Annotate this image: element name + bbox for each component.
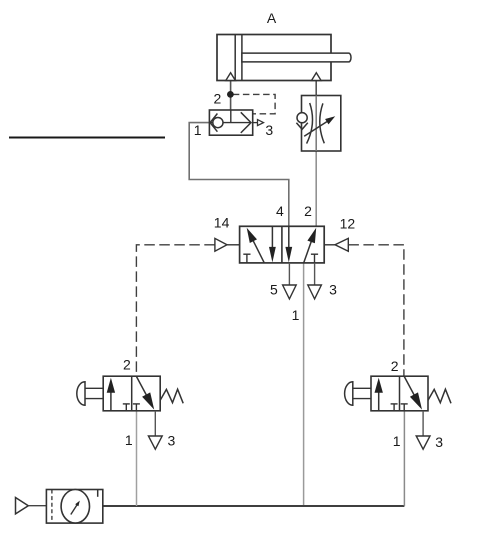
svg-text:3: 3 (329, 282, 337, 298)
quick-exhaust port 3 exhaust arrow (253, 122, 258, 124)
5/2 valve divider (281, 226, 283, 263)
node junction at port 2 of quick-exhaust valve (228, 92, 234, 98)
right 3/2 valve actuated position: flow path 1 to 2 arrow (378, 391, 380, 411)
5/2 pilot 14 arrow (227, 244, 240, 246)
wire quick-exhaust port 1 to 5/2 valve port 4 (189, 123, 289, 227)
quick-exhaust valve body (209, 110, 252, 135)
air service unit tick (97, 490, 99, 497)
right 3/2 valve divider (399, 376, 401, 411)
left 3/2 valve rest position: blocked port 1 (135, 404, 137, 411)
wire supply bus from air service unit to right 3/2 valve port 1 (103, 505, 405, 507)
left 3/2 valve divider (131, 376, 133, 411)
5/2 port 5 exhaust (288, 263, 290, 285)
horizontal rule (9, 136, 165, 138)
left 3/2 valve port 3 exhaust (154, 411, 156, 436)
5/2 pilot 12 arrow (324, 244, 335, 246)
quick-exhaust internal flow line (209, 122, 251, 124)
wire cylinder right port to flow-control valve top (315, 81, 317, 97)
svg-text:1: 1 (194, 122, 202, 138)
5/2 right position: flow path 1 to 2 arrow (304, 240, 312, 263)
wire flow-control valve bottom to 5/2 valve port 2 (315, 151, 317, 227)
svg-text:A: A (267, 10, 277, 26)
flow-control valve body (302, 96, 341, 152)
left 3/2 valve body (103, 376, 160, 411)
svg-text:2: 2 (304, 203, 312, 219)
svg-text:2: 2 (214, 90, 222, 106)
quick-exhaust left seat (210, 114, 217, 132)
cylinder left port arrow (226, 73, 236, 81)
svg-text:5: 5 (270, 282, 278, 298)
5/2 port 3 exhaust (314, 263, 316, 285)
flow-control throttle arcs (307, 103, 313, 144)
air supply source arrow (16, 498, 29, 514)
flow-control check valve seat (296, 123, 307, 130)
quick-exhaust right seat (241, 112, 251, 133)
flow-control adjustment arrow (304, 121, 328, 137)
right 3/2 valve actuated position: blocked port 3 (393, 404, 395, 411)
5/2 left position: flow path 1 to 4 arrow (253, 239, 265, 263)
5/2 right position: flow path 4 to 5 arrow (288, 226, 290, 249)
pilot line 14 (dashed) from 5/2 valve to left 3/2 valve port 2 (136, 245, 214, 376)
flow-control check valve ball (297, 113, 307, 123)
svg-text:3: 3 (265, 122, 273, 138)
right 3/2 valve rest position: blocked port 1 (403, 404, 405, 411)
svg-text:2: 2 (391, 358, 399, 374)
right 3/2 valve rest position: flow path 2 to 3 arrow (404, 376, 415, 396)
svg-text:12: 12 (340, 215, 356, 231)
right 3/2 valve port 3 exhaust (422, 411, 424, 436)
left 3/2 valve push-button actuator (77, 382, 85, 405)
5/2 right position: blocked port 3 (314, 254, 316, 263)
left 3/2 valve rest position: flow path 2 to 3 arrow (136, 376, 147, 396)
left 3/2 valve actuated position: flow path 1 to 2 arrow (110, 391, 112, 411)
cylinder right port arrow (312, 73, 322, 81)
flow-control through line (315, 96, 317, 152)
air service unit dashed separator (51, 490, 53, 524)
wire left 3/2 valve port 1 to supply bus (136, 411, 138, 506)
right 3/2 valve push-button actuator (345, 382, 353, 405)
svg-text:1: 1 (125, 432, 133, 448)
cylinder piston rod (242, 53, 351, 62)
pilot line (dashed) from node at port 2 to quick-exhaust valve (233, 94, 275, 113)
cylinder body (217, 35, 331, 81)
svg-text:1: 1 (292, 307, 300, 323)
wire 5/2 valve port 1 to supply bus (303, 263, 305, 506)
svg-text:4: 4 (276, 203, 284, 219)
quick-exhaust ball (213, 118, 223, 128)
wire source to service unit (28, 505, 46, 507)
right 3/2 valve return spring (428, 389, 451, 403)
5/2 left position: flow path 2 to 3 arrow (271, 226, 273, 249)
5/2 left position: blocked port 5 (246, 254, 248, 263)
left 3/2 valve actuated position: blocked port 3 (125, 404, 127, 411)
air service unit gauge needle (71, 504, 78, 515)
svg-text:3: 3 (435, 434, 443, 450)
svg-text:1: 1 (393, 433, 401, 449)
svg-text:14: 14 (214, 215, 230, 231)
air service unit gauge (61, 490, 89, 524)
5/2 valve body (240, 226, 325, 263)
right 3/2 valve body (371, 376, 428, 411)
left 3/2 valve return spring (160, 389, 183, 403)
svg-text:3: 3 (168, 433, 176, 449)
air service unit body (46, 490, 102, 524)
wire cylinder left port to quick-exhaust port 2 (230, 81, 232, 111)
cylinder piston (234, 35, 236, 81)
pilot line 12 (dashed) from 5/2 valve to right 3/2 valve port 2 (348, 245, 404, 376)
quick-exhaust port 2 internal line (230, 110, 232, 123)
svg-text:2: 2 (123, 357, 131, 373)
